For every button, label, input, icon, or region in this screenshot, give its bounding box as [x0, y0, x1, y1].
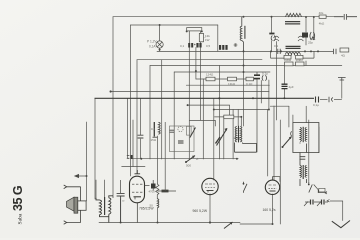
svg-text:0,1A: 0,1A [149, 45, 156, 49]
svg-text:—: — [203, 35, 206, 39]
svg-text:0,1μ: 0,1μ [313, 103, 319, 107]
svg-text:40s: 40s [319, 11, 324, 15]
svg-text:10kΩ: 10kΩ [296, 58, 304, 62]
svg-text:0,1: 0,1 [151, 127, 156, 131]
svg-text:960 5,2W: 960 5,2W [193, 209, 208, 213]
svg-text:P 1,2V: P 1,2V [147, 40, 157, 44]
svg-text:4μF: 4μF [289, 85, 294, 89]
svg-text:500: 500 [186, 164, 191, 168]
svg-text:0,1μ: 0,1μ [262, 72, 268, 76]
svg-text:160 5,2s: 160 5,2s [263, 208, 276, 212]
svg-text:35 G: 35 G [11, 186, 25, 211]
svg-text:∠: ∠ [196, 157, 199, 161]
svg-text:0,1: 0,1 [274, 44, 279, 48]
svg-text:10kΩ: 10kΩ [284, 58, 292, 62]
svg-text:0,1Ω: 0,1Ω [246, 82, 253, 86]
svg-text:13kΩ: 13kΩ [228, 82, 236, 86]
svg-text:4700: 4700 [149, 189, 156, 193]
svg-text:15Ω: 15Ω [151, 138, 157, 142]
svg-text:124Ω: 124Ω [206, 73, 214, 77]
svg-text:0,1: 0,1 [180, 44, 185, 48]
svg-text:4kΩ: 4kΩ [319, 22, 325, 26]
svg-text:Saba: Saba [18, 213, 24, 224]
svg-text:25p: 25p [308, 41, 313, 45]
svg-text:0,5: 0,5 [206, 44, 211, 48]
svg-text:50: 50 [150, 204, 154, 208]
